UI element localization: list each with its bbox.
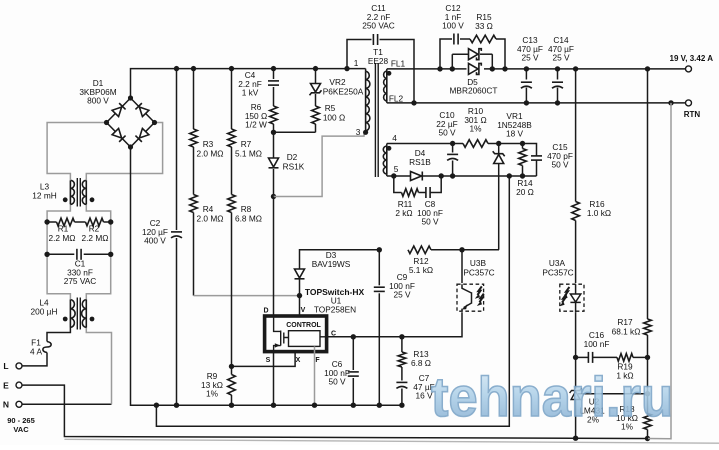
bridge diode bottom-left: [112, 128, 125, 141]
svg-text:BAV19WS: BAV19WS: [312, 259, 351, 269]
resistor R9: [228, 375, 236, 396]
junction C4 top: [271, 66, 276, 71]
bridge diode top-right: [135, 103, 148, 116]
capacitor C16: [588, 352, 592, 363]
label L3 12 mH: [32, 182, 56, 201]
label C12 1 nF 100 V: [442, 3, 464, 31]
shunt U2 LM431: [570, 388, 582, 400]
wire C16 R19 row: [576, 356, 648, 358]
svg-text:R3: R3: [203, 139, 214, 149]
svg-text:33 Ω: 33 Ω: [475, 21, 493, 31]
label C6 100 nF 50 V: [324, 359, 350, 387]
wire R1 R2 row: [47, 221, 111, 223]
pin3 dot: [363, 130, 368, 135]
wire C11 left: [347, 40, 372, 69]
svg-text:100 nF: 100 nF: [584, 339, 610, 349]
junction R14 bottom: [520, 173, 525, 178]
U1 inner block: [289, 331, 321, 347]
junction R1 row right: [108, 219, 113, 224]
svg-text:tehnari.ru: tehnari.ru: [431, 365, 673, 428]
pin5 label: [394, 164, 399, 174]
junction C12 left: [437, 66, 442, 71]
inductor L4 right winding: [82, 300, 87, 328]
label D5 MBR2060CT: [450, 77, 498, 96]
fuse F1: [43, 342, 51, 353]
U1 pin S label: [266, 357, 271, 364]
junction C6 top: [351, 334, 356, 339]
pin4 polarity dot: [387, 146, 392, 151]
bridge corner dots: [104, 95, 157, 149]
U3A dashed box: [560, 284, 584, 311]
junction F bottom: [312, 403, 317, 408]
U1 pin D label: [263, 308, 268, 315]
U3B dashed box: [457, 284, 484, 311]
svg-text:TOP258EN: TOP258EN: [314, 305, 356, 315]
wire N to L4: [22, 403, 112, 405]
junction D5 left: [450, 66, 455, 71]
input terminal N: [3, 400, 22, 410]
input terminal L: [3, 361, 22, 371]
resistor R11: [402, 189, 419, 197]
svg-text:50 V: 50 V: [551, 160, 569, 170]
label C10 22 uF 50 V: [436, 110, 457, 138]
wire C4 to D2: [273, 132, 275, 196]
svg-text:100 Ω: 100 Ω: [323, 113, 345, 123]
junction C9 top: [377, 247, 382, 252]
capacitor C14: [552, 82, 563, 88]
diode D2: [269, 158, 279, 168]
label C9 100 nF 25 V: [389, 272, 415, 300]
junction 19V col: [645, 66, 650, 71]
junction C16 right: [645, 355, 650, 360]
svg-text:400 V: 400 V: [144, 236, 166, 246]
U1 pin C label: [331, 331, 336, 338]
L4 polarity dots: [63, 317, 95, 322]
wire bias return jog: [156, 176, 509, 426]
svg-text:FL1: FL1: [391, 59, 406, 69]
wire D3 column: [300, 250, 380, 296]
svg-text:R7: R7: [241, 139, 252, 149]
svg-text:20 Ω: 20 Ω: [516, 187, 534, 197]
U3B light arrows: [475, 286, 484, 306]
label F1 4 A: [30, 338, 42, 357]
inductor L4 left winding: [70, 300, 75, 328]
label C14 470 uF 25 V: [548, 35, 574, 63]
U3A led: [570, 284, 580, 312]
junction RTN col: [668, 100, 673, 105]
label R11 2 kohm: [395, 199, 412, 218]
wire U3A to U2: [575, 312, 577, 438]
junction R18 bottom: [645, 436, 650, 441]
junction C2 top: [174, 66, 179, 71]
output terminal RTN: [686, 100, 692, 106]
svg-text:RS1B: RS1B: [409, 157, 431, 167]
junction R14 top: [520, 141, 525, 146]
label VR1 1N5248B 18V: [497, 111, 532, 139]
label U3B PC357C: [463, 258, 494, 278]
junction U2 ref: [645, 391, 650, 396]
capacitor C10: [447, 154, 458, 160]
wire C6 column: [352, 337, 354, 405]
svg-text:FL2: FL2: [389, 94, 404, 104]
label TOPSwitch-HX U1 TOP258EN: [305, 287, 365, 315]
label D2 RS1K: [283, 152, 305, 172]
zener VR1: [493, 151, 505, 163]
wire VR2 column: [315, 69, 317, 133]
wire L3 to bridge right: [86, 123, 162, 181]
wire clamp bottoms: [274, 131, 316, 133]
svg-text:25 V: 25 V: [521, 53, 539, 63]
pin3 label: [356, 127, 361, 137]
label L4 200 uH: [31, 298, 58, 317]
wire R14 column: [522, 144, 524, 177]
junction R3 top: [191, 66, 196, 71]
wire C15 column: [536, 154, 538, 176]
svg-text:N: N: [3, 400, 9, 410]
diode D5 lower: [469, 63, 482, 74]
label 19V 3.42A: [670, 54, 714, 63]
wire U2 ref: [578, 393, 648, 395]
junction VR1 top: [496, 141, 501, 146]
FL1 label: [391, 59, 406, 69]
wire R13 C7 column: [401, 337, 403, 405]
wire C12 snubber: [440, 39, 505, 69]
resistor R16: [572, 202, 580, 221]
wire R16 column: [575, 69, 577, 283]
capacitor C4: [268, 81, 279, 85]
wire C9 column: [378, 250, 380, 405]
svg-text:18 V: 18 V: [506, 129, 524, 139]
label R8 6.8 Mohm: [235, 204, 262, 224]
junction C14 top: [555, 66, 560, 71]
junction V node: [297, 293, 302, 298]
junction R9 bottom: [229, 403, 234, 408]
svg-text:EE28: EE28: [368, 56, 389, 66]
label C16 100 nF: [584, 330, 610, 349]
svg-text:3: 3: [356, 127, 361, 137]
resistor R10: [463, 140, 488, 148]
svg-text:L: L: [3, 361, 8, 371]
svg-text:S: S: [266, 357, 271, 364]
label R9 13 kohm 1pct: [201, 371, 223, 399]
capacitor C9: [374, 287, 385, 291]
label R1 2.2 Mohm: [49, 224, 76, 244]
svg-text:MBR2060CT: MBR2060CT: [450, 86, 498, 96]
svg-text:800 V: 800 V: [87, 96, 109, 106]
junction C7 bottom: [399, 403, 404, 408]
bridge diode bottom-right: [135, 128, 148, 141]
diode D3: [295, 269, 305, 279]
wire C13 column: [525, 69, 527, 103]
wire L to fuse: [22, 353, 47, 366]
output terminal 19V: [686, 66, 692, 72]
svg-text:1%: 1%: [206, 389, 219, 399]
svg-text:25 V: 25 V: [393, 290, 411, 300]
wire L3 to bridge left: [47, 123, 106, 181]
label R10 301 ohm 1pct: [464, 106, 486, 134]
junction C1 left: [44, 252, 49, 257]
U3B phototransistor: [462, 284, 472, 311]
capacitor C6: [348, 372, 359, 376]
wire R3 R4 column: [193, 69, 195, 296]
svg-text:4 A: 4 A: [30, 346, 42, 356]
svg-text:2.2 MΩ: 2.2 MΩ: [82, 233, 109, 243]
label R3 2.0 Mohm: [197, 139, 224, 159]
T1 core: [375, 63, 378, 177]
svg-text:E: E: [3, 380, 9, 390]
svg-text:RS1K: RS1K: [283, 162, 305, 172]
junction C11 RTN: [411, 100, 416, 105]
svg-text:PC357C: PC357C: [463, 268, 494, 278]
U1 mosfet: [274, 316, 327, 352]
junction C12 right: [502, 66, 507, 71]
capacitor C15: [531, 156, 542, 160]
T1 bias winding: [383, 144, 386, 177]
svg-text:U3A: U3A: [549, 258, 566, 268]
svg-text:2.0 MΩ: 2.0 MΩ: [197, 214, 224, 224]
svg-text:PC357C: PC357C: [542, 268, 573, 278]
resistor R13: [398, 352, 406, 367]
svg-text:275 VAC: 275 VAC: [64, 276, 97, 286]
svg-text:1%: 1%: [470, 124, 483, 134]
label U2 LM431 2pct: [579, 397, 605, 425]
wire R7 R8 column: [231, 69, 233, 367]
svg-text:4: 4: [392, 133, 397, 143]
U1 pin F label: [315, 357, 320, 364]
wire C2 column: [176, 69, 178, 406]
capacitor C1: [77, 249, 81, 260]
junction S bottom: [271, 403, 276, 408]
svg-text:D: D: [263, 308, 268, 315]
junction U2 bottom: [573, 436, 578, 441]
L4 core: [77, 298, 80, 330]
FL2 label: [389, 94, 404, 104]
label R14 20 ohm: [516, 178, 534, 197]
junction bias return: [507, 173, 512, 178]
label C7 47 uF 16 V: [413, 373, 434, 401]
label C8 100 nF 50 V: [417, 199, 443, 227]
resistor R15: [470, 35, 496, 43]
label R17 68.1 kohm: [612, 317, 641, 337]
wire F pin column: [314, 346, 316, 405]
junction C16 left: [573, 355, 578, 360]
capacitor C13: [521, 82, 532, 88]
wire RTN rail: [387, 102, 686, 104]
wire RTN down column: [648, 103, 671, 439]
junction D4 cathode: [439, 173, 444, 178]
junction R7 top: [229, 66, 234, 71]
wire clamp column: [273, 69, 275, 133]
junction jog top: [154, 403, 159, 408]
label R19 1 kohm: [616, 362, 633, 381]
wire U3B collector: [461, 250, 463, 283]
svg-text:RTN: RTN: [684, 110, 701, 119]
svg-text:19 V, 3.42 A: 19 V, 3.42 A: [670, 54, 714, 63]
junction D5 right: [490, 66, 495, 71]
svg-text:V: V: [301, 307, 306, 314]
bridge D1 outline: [107, 98, 155, 147]
label R7 5.1 Mohm: [235, 139, 262, 159]
resistor R12: [408, 246, 431, 254]
label D1 3KBP06M 800 V: [79, 78, 116, 106]
resistor R3: [190, 129, 198, 147]
capacitor C11: [373, 34, 377, 45]
FL1 polarity dot: [387, 71, 392, 76]
svg-text:1/2 W: 1/2 W: [245, 120, 267, 130]
U1 pin X label: [296, 357, 301, 364]
junction R16 top: [573, 66, 578, 71]
diode D5 upper: [452, 49, 492, 60]
junction C14 bottom: [555, 100, 560, 105]
resistor R14: [519, 149, 527, 166]
svg-text:VAC: VAC: [13, 425, 29, 434]
tvs VR2: [310, 84, 322, 96]
U1 CONTROL label: [286, 322, 321, 329]
svg-text:100 V: 100 V: [442, 21, 464, 31]
junction R1 row left: [44, 219, 49, 224]
T1 primary winding: [366, 69, 370, 133]
svg-text:50 V: 50 V: [438, 128, 456, 138]
wire fuse to L4: [47, 328, 70, 342]
svg-text:VR2: VR2: [329, 77, 346, 87]
svg-text:R17: R17: [617, 317, 633, 327]
svg-text:5: 5: [394, 164, 399, 174]
svg-text:5.1 kΩ: 5.1 kΩ: [409, 265, 433, 275]
input terminal E: [3, 380, 22, 390]
label U3A PC357C: [542, 258, 573, 278]
inductor L3 left winding: [70, 180, 74, 204]
label C1 330 nF 275 VAC: [64, 259, 97, 287]
svg-text:25 V: 25 V: [552, 53, 570, 63]
svg-text:CONTROL: CONTROL: [286, 322, 321, 329]
resistor R4: [190, 195, 198, 213]
label R18 10 kohm 1pct: [616, 404, 638, 432]
wire VR1 column: [498, 144, 500, 250]
L3 polarity dots: [63, 197, 95, 202]
svg-text:200 µH: 200 µH: [31, 306, 58, 316]
junction C9 bottom: [377, 403, 382, 408]
svg-text:2 kΩ: 2 kΩ: [395, 208, 412, 218]
watermark tehnari.ru: [431, 365, 673, 428]
wire V pin column: [299, 296, 301, 316]
svg-text:2.2 MΩ: 2.2 MΩ: [49, 233, 76, 243]
svg-text:1.0 kΩ: 1.0 kΩ: [587, 208, 611, 218]
resistor R7: [228, 129, 236, 147]
junction drain node: [271, 194, 276, 199]
svg-text:2.0 MΩ: 2.0 MΩ: [197, 149, 224, 159]
label R5 100 ohm: [323, 103, 345, 123]
capacitor C8: [426, 187, 430, 198]
label R15 33 ohm: [475, 12, 493, 31]
junction C13 bottom: [524, 100, 529, 105]
label T1 EE28: [368, 47, 389, 66]
U3A light arrows: [559, 287, 569, 306]
junction C13 top: [524, 66, 529, 71]
label R13 6.8 ohm: [411, 349, 431, 368]
label R16 1.0 kohm: [587, 199, 611, 218]
D5 vertical joins: [452, 54, 492, 69]
wire C10 column: [452, 144, 454, 177]
resistor R17: [644, 319, 652, 335]
label D3 BAV19WS: [312, 250, 351, 269]
pin4 label: [392, 133, 397, 143]
wire bias top: [387, 144, 537, 155]
label D4 RS1B: [409, 148, 431, 167]
wire drain to pin3: [274, 132, 365, 196]
junction X R9 node: [229, 364, 234, 369]
wire C1 row: [47, 253, 111, 255]
wire C pin: [327, 312, 462, 337]
junction C1 right: [108, 252, 113, 257]
svg-text:12 mH: 12 mH: [32, 190, 56, 200]
bridge diode top-left: [112, 103, 125, 116]
junction C10 bottom: [450, 173, 455, 178]
capacitor C7: [396, 382, 407, 388]
wire rail to primary: [347, 68, 366, 70]
T1 secondary winding FL: [384, 69, 387, 103]
resistor R8: [228, 195, 236, 213]
inductor L3 right winding: [82, 180, 86, 204]
label C2 120 uF 400 V: [142, 218, 168, 246]
svg-text:50 V: 50 V: [421, 217, 439, 227]
label R6 150ohm half W: [245, 102, 267, 130]
label R12 5.1 kohm: [409, 256, 433, 275]
label R2 2.2 Mohm: [82, 224, 109, 244]
junction pin1: [344, 66, 349, 71]
svg-text:68.1 kΩ: 68.1 kΩ: [612, 327, 641, 337]
resistor R6: [270, 106, 278, 124]
wire C14 column: [557, 69, 559, 103]
capacitor C2: [171, 232, 182, 238]
wire R4 to V pin: [194, 295, 300, 297]
topswitch U1 box: [265, 316, 327, 352]
svg-text:R1: R1: [58, 224, 69, 234]
svg-text:90 - 265: 90 - 265: [7, 416, 35, 425]
label C13 470 uF 25 V: [517, 35, 543, 63]
wire L4 right to N: [86, 328, 111, 405]
capacitor C12: [454, 34, 458, 45]
svg-text:R5: R5: [325, 103, 336, 113]
wire C11 right: [380, 40, 415, 103]
label VR2 P6KE250A: [323, 77, 364, 97]
wire bias bottom: [387, 175, 537, 177]
label 90-265 VAC: [7, 416, 35, 434]
wire bridge plus to rail: [131, 69, 348, 98]
label R4 2.0 Mohm: [197, 204, 224, 224]
wire S pin column: [273, 352, 275, 406]
EMI block right rail: [86, 204, 110, 299]
resistor R5: [312, 106, 320, 124]
wire R9 column: [231, 366, 233, 405]
svg-text:X: X: [296, 357, 301, 364]
wire D column: [273, 197, 275, 317]
svg-text:F: F: [315, 357, 320, 364]
wire E to bottom rail: [22, 385, 648, 438]
wire R11 C8 loop: [394, 176, 441, 193]
wire FL1 rail: [387, 68, 686, 70]
wire bridge minus down: [131, 147, 402, 405]
svg-text:P6KE250A: P6KE250A: [323, 87, 364, 97]
junction C6 bottom: [351, 403, 356, 408]
resistor R19: [617, 354, 633, 362]
label C15 470 pF 50 V: [547, 142, 573, 170]
junction R11 tap: [391, 173, 396, 178]
U1 pin V label: [301, 307, 306, 314]
svg-text:1: 1: [354, 58, 359, 68]
svg-text:5.1 MΩ: 5.1 MΩ: [235, 149, 262, 159]
L3 core: [77, 178, 80, 207]
EMI block left rail: [47, 204, 70, 299]
